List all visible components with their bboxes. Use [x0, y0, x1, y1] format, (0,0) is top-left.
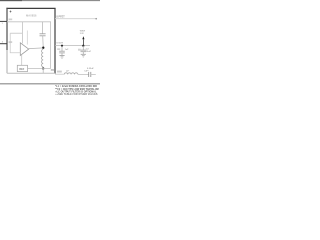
wire C4 out	[91, 73, 96, 75]
node C junction dot	[61, 45, 63, 47]
C2 label left	[78, 49, 81, 51]
compensation capacitor C3	[42, 22, 44, 34]
pin 3 wire (left mid)	[0, 43, 7, 45]
IC U1 outline: left edge lower	[6, 50, 8, 73]
inductor L1 internal coil	[42, 49, 44, 67]
stub node B to box bottom	[42, 69, 44, 73]
op-amp U1A	[20, 43, 28, 56]
internal comparator block: top edge	[10, 32, 22, 34]
FB pin number label outside	[57, 71, 62, 73]
pin OUT wire (mid right)	[55, 45, 90, 47]
node B junction dot	[42, 67, 44, 69]
svg-text:++SEE TABLE FOR OTHER VALUES: ++SEE TABLE FOR OTHER VALUES	[55, 93, 98, 96]
footnote line 3	[55, 91, 97, 94]
internal wire block to triangle	[21, 22, 23, 44]
svg-text:VOUT: VOUT	[80, 31, 86, 33]
IC U1 outline: left edge upper	[6, 8, 8, 50]
internal comparator block: left edge	[9, 33, 11, 43]
op-amp input wire	[10, 44, 20, 53]
FB pin label inside	[51, 70, 54, 72]
pin 1 number label	[2, 23, 4, 25]
svg-text:FB: FB	[51, 70, 54, 72]
C2 value label right	[86, 48, 90, 50]
ground G2	[81, 53, 86, 55]
svg-text:10uF: 10uF	[86, 51, 92, 53]
pin 3 net name smudge	[9, 41, 13, 43]
VOUT arrow terminal	[82, 36, 84, 39]
U1 part number label MAX856	[26, 13, 37, 17]
inductor L2 (output filter coil)	[64, 73, 78, 75]
OUT pin label	[57, 43, 64, 45]
LX pin label	[57, 17, 66, 19]
pin 1 wire (VCC, left top)	[0, 20, 7, 22]
page header rule along top edge	[0, 0, 100, 2]
pin LX wire (top right)	[55, 18, 96, 20]
ground G1	[59, 55, 64, 57]
L2 label	[66, 71, 69, 73]
wire triangle to REF block	[21, 55, 23, 66]
C1 value label right	[65, 49, 69, 51]
IC U1 outline: right edge	[54, 8, 56, 73]
pin 3 number label	[2, 42, 4, 44]
LX terminal dot	[95, 18, 97, 20]
IC U1 outline: bottom edge	[7, 72, 55, 74]
pin 1 net name smudge	[9, 19, 13, 21]
svg-text:8 PFET: 8 PFET	[57, 17, 66, 19]
C4 labels	[87, 68, 94, 70]
capacitor C4 (series)	[88, 72, 90, 77]
wire REF to node B	[28, 68, 51, 70]
svg-text:L2*: L2*	[66, 71, 69, 73]
FB pin wire	[55, 73, 64, 75]
figure rule	[0, 83, 100, 85]
node D junction dot	[82, 45, 84, 47]
C1 label left	[57, 48, 60, 50]
footnote line 2	[55, 88, 98, 91]
svg-text:6 OUT: 6 OUT	[57, 43, 64, 45]
IC U1 outline: top edge	[6, 7, 55, 9]
footnote line 1	[55, 85, 97, 88]
internal supply rail wire	[7, 22, 51, 69]
wire L2 to C4	[78, 73, 89, 75]
internal reference line	[26, 31, 28, 45]
reference block REF	[17, 65, 27, 71]
svg-text:0.33uF: 0.33uF	[87, 68, 94, 70]
node A junction dot	[42, 47, 44, 49]
capacitor C2	[82, 46, 84, 50]
svg-text:REF: REF	[19, 68, 24, 71]
capacitor C1	[61, 46, 63, 52]
VOUT label	[80, 31, 86, 33]
footnote line 4	[55, 93, 98, 96]
op-amp output wire	[29, 47, 44, 50]
polarity mark +	[10, 11, 12, 13]
